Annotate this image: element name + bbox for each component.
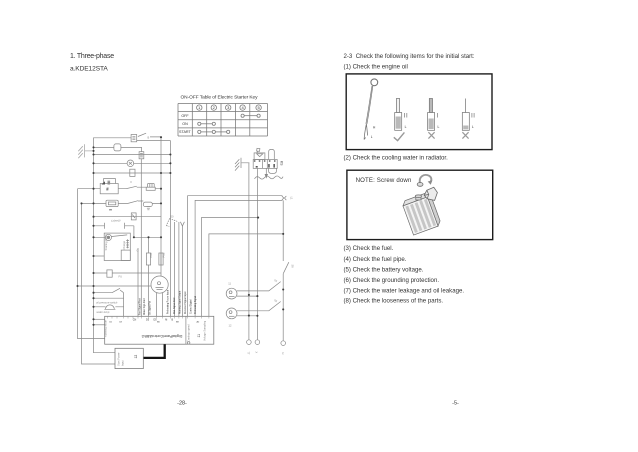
pin labels U1 top bbox=[133, 318, 174, 321]
relay K0 box on top row bbox=[131, 135, 137, 142]
starter assembly box U2 bbox=[104, 233, 130, 260]
battery B box bbox=[100, 178, 118, 193]
svg-text:S0: S0 bbox=[170, 215, 174, 219]
svg-text:B: B bbox=[148, 135, 150, 139]
wire K0 lower branch bbox=[137, 140, 171, 142]
junction dots bus2/bus3 bbox=[133, 136, 172, 238]
table contact START row (1-2-3) bbox=[198, 130, 230, 133]
wire L2 lower stub bbox=[237, 315, 257, 317]
svg-text:Voltage Sampling: Voltage Sampling bbox=[203, 320, 207, 341]
svg-text:Cr(amp): Cr(amp) bbox=[111, 218, 121, 223]
node circle on U1 bottom bbox=[187, 342, 190, 345]
junction dots right side bbox=[248, 217, 284, 317]
screw arrow head bbox=[428, 180, 433, 184]
wire corner x187.6 / y195.7 bbox=[188, 196, 283, 317]
figure box 1: engine oil bbox=[346, 74, 492, 150]
terminal T2 bbox=[255, 340, 260, 345]
svg-text:L: L bbox=[472, 125, 474, 129]
svg-text:(1) Check the engine oil: (1) Check the engine oil bbox=[344, 64, 408, 71]
svg-text:FU1: FU1 bbox=[149, 252, 153, 257]
lamp L2 bbox=[226, 308, 237, 319]
dipstick shaft bbox=[366, 86, 373, 124]
svg-text:L: L bbox=[405, 125, 407, 129]
svg-text:Starting Motor: Starting Motor bbox=[104, 234, 108, 250]
wire KS drop x257.4 bbox=[256, 168, 258, 339]
wire mid drop x182.4 bbox=[181, 226, 183, 316]
wire row y154.5 bbox=[94, 154, 171, 156]
svg-text:11: 11 bbox=[228, 282, 231, 286]
switch S1 bbox=[126, 186, 137, 189]
U loop under KS bbox=[269, 168, 277, 173]
svg-text:C6: C6 bbox=[109, 322, 113, 324]
wire K1 drop x141.3 bbox=[140, 159, 142, 316]
svg-text:3: 3 bbox=[227, 105, 230, 110]
table contact ON row (1-2) bbox=[198, 122, 216, 125]
junction dots rails bbox=[76, 202, 82, 287]
wire corner x195.1 / y200.4 bbox=[195, 200, 282, 316]
cable squiggle bbox=[255, 176, 284, 179]
terminal T1 bbox=[247, 340, 252, 345]
fuse FU box bbox=[107, 270, 112, 277]
relay FS rounded box bbox=[114, 144, 121, 151]
svg-text:M: M bbox=[165, 318, 167, 321]
wire rail1 left vertical bbox=[78, 189, 105, 339]
svg-text:DigitalPanelControl&BBG: DigitalPanelControl&BBG bbox=[141, 334, 182, 338]
svg-text:C8: C8 bbox=[119, 322, 123, 324]
cap oval bbox=[417, 183, 423, 187]
svg-text:Water Sign Find: Water Sign Find bbox=[143, 298, 146, 315]
relay K2 box bbox=[130, 169, 135, 176]
svg-text:B: B bbox=[172, 318, 174, 321]
svg-text:Ran Signal Find: Ran Signal Find bbox=[174, 297, 176, 314]
svg-text:5: 5 bbox=[257, 105, 260, 110]
svg-text:(7) Check the water leakage an: (7) Check the water leakage and oil leak… bbox=[344, 288, 465, 295]
svg-text:A2: A2 bbox=[197, 321, 200, 324]
svg-text:4: 4 bbox=[241, 105, 244, 110]
ground G1 bbox=[78, 144, 93, 158]
relay K3 box bbox=[131, 213, 136, 220]
wire row y286 bbox=[78, 285, 152, 287]
radiator filler neck bbox=[415, 195, 421, 200]
water temp sensor WT bbox=[94, 305, 124, 309]
relay K1 box bbox=[139, 152, 144, 159]
wire bus2 vertical bbox=[160, 137, 162, 276]
svg-text:H: H bbox=[373, 126, 376, 130]
connector L1 plug bbox=[282, 196, 286, 200]
wire row y256 bbox=[94, 255, 105, 257]
dipstick tip bbox=[364, 124, 368, 140]
svg-text:Charge: Charge bbox=[122, 240, 126, 249]
svg-text:oil pressure switch: oil pressure switch bbox=[96, 301, 118, 305]
table: ON-OFF table grid bbox=[178, 104, 268, 137]
junction dots bus1 bbox=[92, 146, 94, 326]
key icon bbox=[257, 148, 260, 153]
svg-text:L: L bbox=[438, 125, 440, 129]
wire meter pins bbox=[157, 293, 163, 316]
svg-text:water temp: water temp bbox=[97, 310, 110, 314]
fuse FU2 bbox=[159, 253, 163, 265]
svg-text:H: H bbox=[281, 353, 285, 355]
dipstick H L marks bbox=[371, 126, 376, 139]
svg-text:1: 1 bbox=[198, 105, 201, 110]
wire row y173 bbox=[94, 172, 171, 174]
svg-text:S5: S5 bbox=[273, 278, 278, 283]
svg-text:-5-: -5- bbox=[452, 401, 459, 407]
svg-text:Running Signal Output: Running Signal Output bbox=[178, 291, 181, 314]
hour meter M1 bbox=[151, 276, 168, 293]
wire corner x208.9 / y233.9 bbox=[209, 234, 283, 316]
vertical signal labels above U1 bbox=[138, 290, 197, 315]
svg-text:Start Power: Start Power bbox=[117, 352, 121, 366]
wire corner x201.4 / y217.6 bbox=[201, 218, 258, 317]
wire rail2 left vertical bbox=[82, 203, 116, 364]
svg-text:Oil Signal Put: Oil Signal Put bbox=[149, 301, 152, 315]
svg-text:KS: KS bbox=[280, 161, 284, 166]
indicator P1 circle bbox=[127, 160, 134, 167]
wire L1 lower stub bbox=[237, 295, 257, 297]
svg-text:X: X bbox=[255, 352, 259, 354]
wire L1 upper stub + switch S5 bbox=[237, 282, 281, 291]
wire right drop x283.2 with switch S9 bbox=[282, 200, 284, 340]
wire row y137.5 top bbox=[94, 136, 162, 139]
bottle3 marks bbox=[472, 113, 474, 118]
wire row y147.4 bbox=[94, 147, 142, 151]
wire KS drop x248.9 bbox=[248, 163, 250, 340]
svg-text:II: II bbox=[131, 180, 133, 184]
svg-text:12: 12 bbox=[134, 355, 138, 359]
svg-text:(3) Check the fuel.: (3) Check the fuel. bbox=[344, 245, 394, 252]
svg-text:2-3 Check the following items: 2-3 Check the following items for the in… bbox=[344, 53, 475, 60]
svg-text:NOTE: Screw down: NOTE: Screw down bbox=[356, 177, 412, 184]
wire drop from C1 bbox=[133, 226, 135, 238]
svg-text:CN: CN bbox=[133, 318, 137, 321]
terminal T3 bbox=[281, 341, 286, 346]
svg-text:11: 11 bbox=[197, 334, 201, 338]
svg-text:2: 2 bbox=[213, 105, 216, 110]
table contact OFF row (4-5) bbox=[241, 114, 260, 117]
wire row y163.3 bbox=[94, 162, 171, 164]
svg-text:(5) Check the battery voltage.: (5) Check the battery voltage. bbox=[344, 267, 424, 274]
pin ticks U1 top bbox=[108, 316, 209, 318]
radiator cap part bbox=[424, 187, 437, 200]
svg-text:m: m bbox=[109, 207, 112, 211]
screw arrow icon bbox=[420, 175, 432, 184]
horn H1 bbox=[143, 202, 152, 210]
bottle1 marks bbox=[405, 113, 407, 118]
svg-text:Preheating Power Input: Preheating Power Input bbox=[167, 290, 170, 314]
fuse holder FH comb bbox=[146, 184, 155, 191]
wire row y292.7 oil switch bbox=[94, 288, 124, 292]
svg-text:D3: D3 bbox=[146, 318, 150, 321]
svg-text:7T: 7T bbox=[246, 352, 250, 355]
bottle 3 (low level, X) bbox=[462, 99, 469, 131]
wire bus1 main vertical bbox=[94, 138, 116, 353]
wire bus3 vertical bbox=[169, 141, 171, 317]
wire row y298.2 bbox=[94, 297, 124, 299]
wire row y203.4 bbox=[82, 201, 162, 203]
figure box 2: radiator note bbox=[347, 170, 493, 239]
svg-text:Crankup speed: Crankup speed bbox=[187, 324, 191, 342]
switch S9 bbox=[283, 262, 289, 274]
svg-text:Preheating Signal: Preheating Signal bbox=[194, 295, 197, 314]
wire row y216.7 bbox=[94, 216, 162, 218]
keyhole box on KS top bbox=[254, 153, 265, 160]
bottle 2 (mid level, X) bbox=[428, 99, 435, 131]
wire row y237.3 motor row bbox=[94, 236, 162, 238]
svg-text:12: 12 bbox=[229, 324, 232, 328]
switch S2 bbox=[128, 201, 138, 204]
svg-text:FU: FU bbox=[119, 275, 123, 279]
svg-text:E: E bbox=[107, 187, 109, 191]
X mark 2 bbox=[462, 132, 468, 138]
wire loop over key switch bbox=[269, 149, 275, 159]
bottle 1 (full level) bbox=[395, 99, 402, 131]
svg-text:Control Digital: Control Digital bbox=[189, 299, 192, 314]
wire row y324.8 bbox=[94, 324, 105, 326]
small box: digital panel input U3 bbox=[115, 348, 143, 368]
wire mid drop x178.9 bbox=[178, 222, 180, 316]
svg-text:S6: S6 bbox=[273, 298, 278, 303]
svg-text:ON-OFF Table of Electric Start: ON-OFF Table of Electric Starter Key bbox=[181, 95, 259, 101]
lamp L1 bbox=[226, 288, 237, 299]
wire L2 upper stub + switch S6 bbox=[237, 302, 281, 311]
svg-text:Running Mode: Running Mode bbox=[103, 320, 107, 337]
wire oil drop vertical bbox=[123, 293, 125, 317]
connector arrow CN bbox=[166, 219, 184, 227]
dipstick ring bbox=[371, 79, 378, 86]
svg-text:L1: L1 bbox=[290, 197, 294, 200]
relay FR pill bbox=[106, 200, 118, 206]
radiator body bbox=[402, 192, 442, 235]
X mark 1 bbox=[428, 132, 434, 138]
bottle2 marks bbox=[437, 113, 439, 118]
svg-text:(4) Check the fuel pipe.: (4) Check the fuel pipe. bbox=[344, 256, 407, 263]
svg-text:(6) Check the grounding protec: (6) Check the grounding protection. bbox=[344, 277, 440, 284]
svg-text:B8: B8 bbox=[176, 322, 179, 324]
wire row y188.7 battery row bbox=[78, 187, 162, 189]
svg-text:B6: B6 bbox=[157, 322, 160, 324]
switch B1 on top row bbox=[138, 133, 146, 136]
svg-text:-28-: -28- bbox=[177, 401, 187, 407]
svg-text:Fuel Signal First: Fuel Signal First bbox=[138, 298, 141, 315]
svg-text:ON: ON bbox=[182, 122, 188, 126]
table header circled digits 1-5 bbox=[197, 105, 262, 110]
svg-text:(2) Check the cooling water in: (2) Check the cooling water in radiator. bbox=[344, 155, 449, 162]
wire drop x138 bbox=[137, 248, 139, 316]
divider in U1 bbox=[185, 316, 187, 344]
wire row y273 fuse row bbox=[94, 272, 162, 274]
wire mid drop x174.5 bbox=[174, 222, 176, 316]
capacitor C1 bbox=[94, 223, 134, 229]
key switch KS bbox=[253, 160, 277, 169]
wire KS drop arrow x266.3 bbox=[265, 168, 267, 177]
svg-text:L: L bbox=[371, 135, 373, 139]
check mark bbox=[394, 132, 405, 140]
svg-text:S9: S9 bbox=[290, 265, 294, 269]
svg-text:(8) Check the looseness of the: (8) Check the looseness of the parts. bbox=[344, 298, 444, 305]
svg-text:Input: Input bbox=[121, 360, 125, 366]
svg-text:FU2: FU2 bbox=[161, 252, 165, 257]
svg-text:Received Signal Input: Received Signal Input bbox=[184, 291, 187, 314]
svg-text:1. Three-phase: 1. Three-phase bbox=[70, 53, 114, 60]
svg-text:START: START bbox=[179, 130, 191, 134]
svg-text:a.KDE12STA: a.KDE12STA bbox=[70, 66, 108, 73]
wire row y319.3 bbox=[94, 318, 105, 320]
svg-text:OFF: OFF bbox=[181, 114, 189, 118]
ground G2 bbox=[235, 158, 249, 171]
thick battery cable bbox=[143, 344, 164, 358]
KS pin ticks bbox=[254, 160, 276, 167]
table row labels bbox=[179, 114, 191, 134]
fuse FU1 bbox=[146, 237, 150, 316]
